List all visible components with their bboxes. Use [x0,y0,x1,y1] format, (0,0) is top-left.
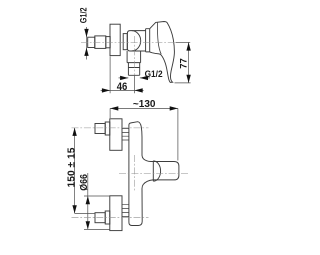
svg-text:77: 77 [179,58,189,69]
svg-text:G1/2: G1/2 [78,8,89,24]
svg-text:G1/2: G1/2 [145,68,163,79]
svg-text:Ø66: Ø66 [79,174,90,191]
svg-text:150 ± 15: 150 ± 15 [67,147,78,187]
svg-text:~130: ~130 [133,99,156,110]
svg-text:46: 46 [117,81,128,93]
